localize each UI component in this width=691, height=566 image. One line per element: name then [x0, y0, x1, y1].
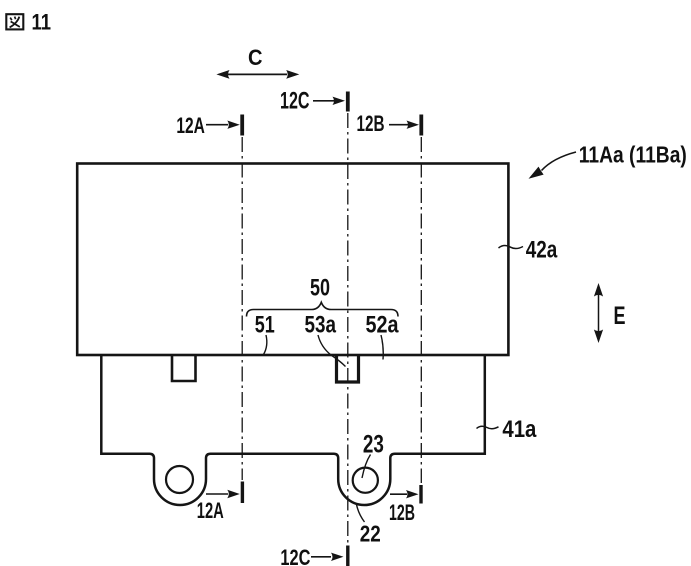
svg-text:53a: 53a [305, 312, 337, 339]
svg-text:11Aa (11Ba): 11Aa (11Ba) [579, 142, 687, 168]
label 12B bottom with arrow [389, 490, 419, 525]
tick 12B top [419, 115, 423, 136]
label 12A bottom with arrow [197, 490, 240, 523]
label 12B top with arrow [357, 111, 420, 136]
centerline 12B [420, 137, 422, 483]
svg-text:41a: 41a [502, 416, 537, 443]
label 42a with leader [499, 237, 558, 264]
hole circle 23 in right lobe [353, 468, 378, 493]
svg-text:12C: 12C [280, 88, 310, 115]
svg-text:50: 50 [310, 275, 330, 302]
label 22 with leader [357, 505, 381, 547]
tick 12C bottom [346, 546, 349, 566]
figure title 図 11 [6, 10, 51, 35]
svg-text:C: C [248, 45, 263, 70]
svg-text:12B: 12B [389, 500, 415, 525]
label 51 with leader [255, 312, 275, 355]
label 53a with leader [305, 312, 346, 367]
svg-text:12A: 12A [176, 113, 205, 138]
label 12C top with arrow [280, 88, 345, 115]
svg-text:52a: 52a [366, 312, 400, 339]
main body 42a rectangle [77, 164, 508, 356]
centerline 12A [241, 137, 243, 480]
brace under 50 [247, 302, 399, 316]
label 23 with leader [362, 431, 384, 479]
label 41a with leader [477, 416, 537, 443]
lower body 41a outline with lobes [101, 355, 485, 505]
label 11Aa (11Ba) with curved arrow [529, 142, 687, 179]
svg-text:12C: 12C [280, 545, 310, 566]
svg-text:51: 51 [255, 312, 275, 339]
label 12A top with arrow [176, 113, 239, 138]
dimension arrow C [216, 45, 299, 79]
svg-text:23: 23 [363, 431, 384, 459]
centerline 12C [347, 113, 349, 543]
label 52a with leader [366, 312, 400, 360]
hole circle in left lobe [166, 466, 193, 493]
tick 12C top [346, 92, 350, 112]
svg-text:42a: 42a [526, 237, 558, 264]
svg-text:11: 11 [32, 10, 52, 35]
dimension arrow E [594, 283, 626, 343]
svg-text:12A: 12A [197, 498, 224, 523]
tab 53a (center protrusion) [337, 355, 359, 382]
tick 12B bottom [419, 485, 422, 504]
tick 12A bottom [241, 482, 244, 504]
label 12C bottom with arrow [280, 545, 343, 566]
tick 12A top [240, 115, 244, 136]
tab 51-side (left protrusion) [172, 355, 196, 381]
svg-text:E: E [614, 302, 626, 330]
label 50 [310, 275, 330, 302]
svg-text:22: 22 [360, 521, 381, 547]
svg-text:12B: 12B [357, 111, 385, 136]
